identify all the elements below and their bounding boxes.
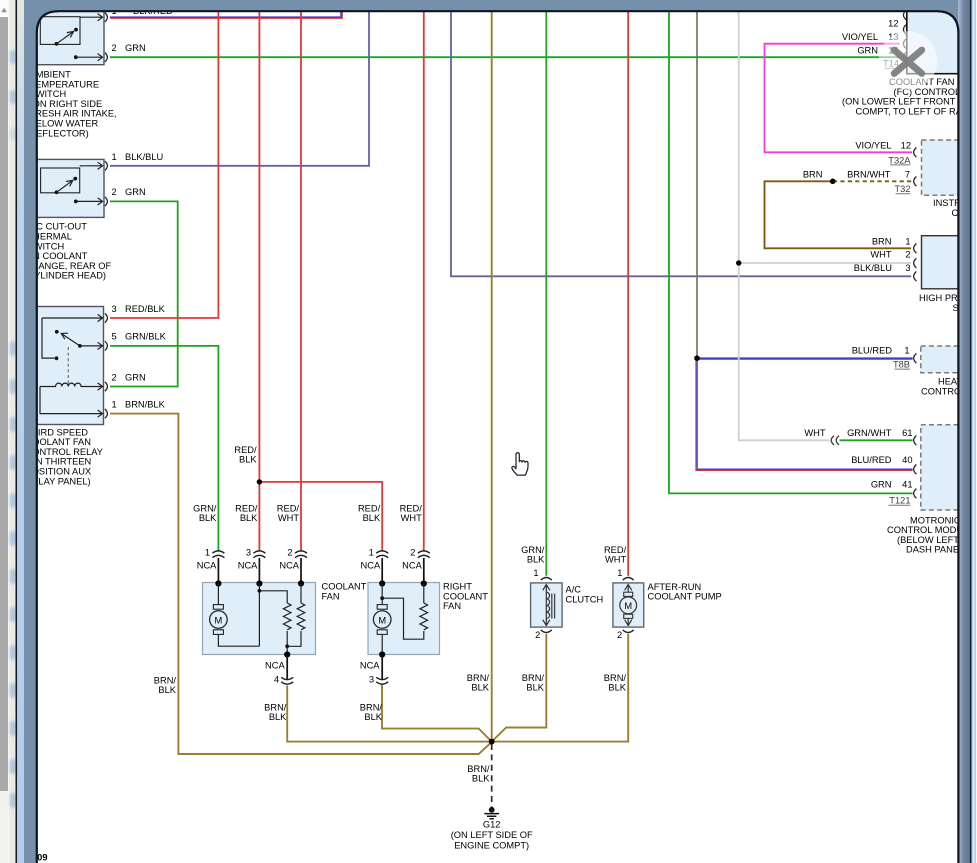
wire RED/WHT vertical to after-run pump pin 1	[627, 10, 629, 576]
svg-text:DEFLECTOR): DEFLECTOR)	[30, 128, 89, 138]
scrollbar track	[0, 0, 9, 863]
ambient switch pin 2 connector arc	[105, 53, 108, 62]
svg-text:GRN/: GRN/	[193, 503, 217, 513]
svg-text:WHT: WHT	[870, 250, 891, 260]
relay actuator dashed link	[67, 347, 69, 384]
svg-text:AFTER-RUN: AFTER-RUN	[648, 582, 702, 592]
svg-text:(ON LEFT SIDE OF: (ON LEFT SIDE OF	[451, 830, 533, 840]
svg-text:2: 2	[617, 630, 622, 640]
right fan internal node	[380, 596, 384, 600]
ambient switch contact A	[55, 42, 59, 46]
relay NO contact node	[55, 330, 59, 334]
svg-text:GRN/: GRN/	[521, 545, 545, 555]
right fan pin 2 connector	[418, 551, 430, 558]
coolant fan pin 4 lead	[286, 655, 288, 680]
svg-text:BLK: BLK	[472, 774, 490, 784]
right fan motor M	[377, 605, 387, 610]
svg-text:COOLANT PUMP: COOLANT PUMP	[648, 592, 722, 602]
wire WHT to high pressure switch pin 2	[739, 262, 911, 264]
svg-text:RED/: RED/	[400, 503, 423, 513]
right coolant fan box	[368, 583, 440, 655]
after-run coolant pump box	[613, 583, 644, 627]
svg-text:BLK: BLK	[269, 712, 287, 722]
svg-text:RED/: RED/	[604, 545, 627, 555]
svg-text:A/C: A/C	[566, 585, 582, 595]
svg-text:1: 1	[904, 346, 909, 356]
svg-text:1: 1	[533, 568, 538, 578]
svg-text:NCA: NCA	[360, 660, 380, 670]
svg-text:WHT: WHT	[804, 428, 825, 438]
a/c clutch plates	[552, 594, 555, 619]
ambient switch pin 2 lead	[76, 54, 103, 61]
instrument cluster T32A pin arc	[914, 148, 917, 158]
svg-text:FRESH AIR INTAKE,: FRESH AIR INTAKE,	[30, 109, 117, 119]
junction on RED/BLK wire	[257, 479, 262, 484]
relay common pivot node	[78, 344, 82, 348]
a/c clutch pin 2 connector arc	[541, 630, 552, 633]
high pressure switch box	[922, 236, 972, 289]
relay coil and pin 2 lead	[40, 383, 103, 390]
svg-text:NCA: NCA	[197, 560, 217, 570]
a/c cut-out thermal switch box	[28, 159, 104, 217]
relay fixed contact frame	[42, 318, 54, 358]
svg-text:2: 2	[112, 372, 117, 382]
svg-text:2: 2	[410, 547, 415, 557]
thermal switch pin 2 lead	[76, 198, 103, 205]
heater control box	[921, 346, 971, 373]
thermal switch contact A	[55, 190, 59, 194]
svg-text:40: 40	[902, 455, 912, 465]
svg-text:BRN/WHT: BRN/WHT	[847, 169, 891, 179]
coolant fan resistor junction node	[285, 644, 289, 648]
svg-text:GRN/BLK: GRN/BLK	[125, 332, 167, 342]
wire GRN/BLK vertical to A/C clutch pin 1	[545, 10, 547, 576]
svg-text:2: 2	[112, 43, 117, 53]
wire BRN/BLK after-run pump pin 2 to ground junction	[493, 634, 629, 742]
svg-text:RED/: RED/	[235, 503, 258, 513]
gradient strip	[17, 0, 24, 863]
svg-text:7: 7	[905, 169, 910, 179]
close button X	[894, 50, 922, 74]
ground symbol G12	[489, 807, 495, 813]
wire GRN/BLK relay pin 5 to coolant fan pin 1	[110, 346, 218, 551]
ground junction G12 node	[489, 739, 495, 745]
svg-text:BLK: BLK	[364, 712, 382, 722]
instrument cluster box	[922, 140, 972, 195]
right fan bottom terminal node	[379, 651, 385, 657]
svg-text:RED/BLK: RED/BLK	[125, 304, 166, 314]
coolant fan internal node	[258, 589, 262, 593]
motronic pin 61 arc	[914, 436, 917, 446]
motronic pin 40 arc	[914, 465, 917, 475]
svg-text:COOLANT: COOLANT	[443, 591, 488, 601]
svg-text:1: 1	[205, 547, 210, 557]
wire BLK/BLU vertical to high pressure switch pin 3	[451, 10, 911, 276]
a/c clutch center line with arrows	[543, 585, 550, 626]
wire BRN/BLK coolant fan pin 4 to ground junction	[287, 686, 490, 742]
svg-text:5: 5	[112, 332, 117, 342]
svg-text:2: 2	[905, 250, 910, 260]
svg-text:BLU/RED: BLU/RED	[851, 455, 892, 465]
svg-text:NCA: NCA	[361, 560, 381, 570]
scrollbar thumb	[0, 17, 8, 791]
svg-text:BLK: BLK	[158, 685, 176, 695]
coolant fan pin leads NCA	[218, 558, 423, 583]
relay NC contact node	[55, 356, 59, 360]
ambient switch inner frame	[40, 17, 80, 45]
wire BRN/BLK relay pin 1 to ground junction	[110, 414, 492, 754]
wire BRN/BLK dashed ground lead	[491, 744, 493, 807]
coolant fan box	[203, 583, 316, 655]
ambient switch pin 1 lead	[80, 14, 103, 21]
coolant fan pin 3 connector	[253, 551, 265, 558]
pump motor M	[624, 592, 633, 596]
relay pin 2 connector arc	[105, 382, 108, 391]
svg-text:BRN/: BRN/	[467, 764, 490, 774]
svg-text:GRN: GRN	[125, 187, 146, 197]
close button translucent circle	[879, 31, 938, 90]
coolant fan control (FC) module box	[907, 6, 977, 74]
svg-text:BRN/: BRN/	[264, 703, 287, 713]
right fan resistor	[420, 603, 428, 630]
svg-text:BRN/BLK: BRN/BLK	[125, 399, 166, 409]
relay pin 1 connector arc	[105, 409, 108, 418]
svg-text:GRN: GRN	[871, 480, 892, 490]
svg-text:VIO/YEL: VIO/YEL	[842, 32, 878, 42]
ambient temperature switch box	[28, 0, 104, 65]
coolant fan motor M	[213, 605, 223, 610]
wire GRY vertical to BLU/RED node	[696, 10, 698, 358]
coolant fan resistor 2	[297, 603, 305, 630]
svg-text:(ON RIGHT SIDE: (ON RIGHT SIDE	[30, 99, 103, 109]
svg-text:FLANGE, REAR OF: FLANGE, REAR OF	[28, 261, 112, 271]
svg-text:FAN: FAN	[443, 601, 461, 611]
right outer light strip	[972, 0, 977, 863]
svg-text:FAN: FAN	[322, 591, 340, 601]
thermal switch pin 2 connector arc	[105, 197, 108, 206]
wire BLU/RED to motronic pin 40 (red stripe)	[696, 358, 913, 470]
svg-text:ENGINE COMPT): ENGINE COMPT)	[454, 840, 529, 850]
svg-text:2: 2	[535, 630, 540, 640]
svg-text:BLK/BLU: BLK/BLU	[854, 263, 892, 273]
thermal switch inner frame	[41, 168, 80, 193]
thermal switch contact B	[73, 177, 77, 181]
svg-text:NCA: NCA	[279, 560, 299, 570]
wire RED/BLK vertical to coolant fan pin 3	[258, 10, 260, 551]
coolant fan bottom terminal node	[284, 651, 290, 657]
svg-text:4: 4	[274, 675, 279, 685]
svg-text:WHT: WHT	[278, 513, 299, 523]
thermal switch pin 2 node	[74, 200, 78, 204]
wire GRN vertical to motronic pin 41	[669, 10, 913, 493]
right frame band gradient	[958, 0, 970, 863]
wire WHT vertical to splice	[739, 10, 830, 440]
wire GRN from ambient switch pin 2 to FC module pin 14	[110, 56, 900, 58]
coolant fan resistor 1	[283, 603, 291, 630]
svg-text:1: 1	[112, 152, 117, 162]
svg-text:3: 3	[369, 675, 374, 685]
ambient switch contact B	[74, 28, 78, 32]
svg-text:BLK: BLK	[526, 682, 544, 692]
a/c clutch coil	[546, 592, 549, 618]
svg-text:T8B: T8B	[893, 360, 910, 370]
wire GRN/WHT splice to motronic pin 61	[840, 439, 913, 441]
FC module pin 13 arc	[903, 39, 906, 49]
wire BLK/RED from ambient switch pin 1 (red stripe)	[110, 10, 342, 18]
right fan pin 1 connector	[376, 551, 388, 558]
svg-text:BRN: BRN	[803, 169, 823, 179]
relay pin 5 connector arc	[105, 341, 108, 350]
junction on WHT wire	[736, 260, 741, 265]
svg-text:12: 12	[888, 18, 898, 28]
relay pin 5 lead	[80, 342, 103, 349]
svg-text:1: 1	[905, 237, 910, 247]
svg-text:BLK: BLK	[240, 513, 258, 523]
svg-text:T32A: T32A	[888, 155, 911, 165]
ambient switch arm	[57, 31, 74, 43]
svg-text:2: 2	[287, 547, 292, 557]
panel divider dark line	[16, 0, 18, 863]
pump pin 2 connector arc	[623, 630, 634, 633]
svg-text:(ON LOWER LEFT FRONT OF ENGINE: (ON LOWER LEFT FRONT OF ENGINE	[842, 97, 977, 107]
svg-text:RIGHT: RIGHT	[443, 582, 472, 592]
svg-text:1: 1	[617, 568, 622, 578]
svg-text:BLK: BLK	[363, 513, 381, 523]
wire BRN to high pressure switch pin 1	[765, 181, 912, 248]
svg-text:1: 1	[112, 399, 117, 409]
svg-text:BRN/: BRN/	[360, 703, 383, 713]
thermal switch pin 1 connector arc	[105, 161, 108, 170]
svg-text:3: 3	[112, 304, 117, 314]
thumbnail strip background	[8, 0, 10, 863]
right fan pin 3 lead	[381, 655, 383, 680]
svg-text:T121: T121	[889, 496, 910, 506]
svg-text:WHT: WHT	[605, 554, 626, 564]
svg-text:12: 12	[901, 141, 911, 151]
svg-text:NCA: NCA	[402, 560, 422, 570]
svg-text:GRN: GRN	[125, 43, 146, 53]
wire BLK/BLU from thermal switch pin 1	[110, 10, 369, 166]
svg-text:3: 3	[246, 547, 251, 557]
pump center line with arrows	[625, 585, 632, 626]
wire BLK/RED from ambient switch pin 1	[110, 10, 341, 17]
wire BRN/BLK center vertical to ground junction	[491, 10, 493, 740]
wire BLU/RED to motronic pin 40	[697, 358, 913, 469]
svg-text:BLK/BLU: BLK/BLU	[125, 152, 163, 162]
ambient switch pin 1 connector arc	[105, 13, 108, 22]
right fan pin 3 connector	[376, 677, 388, 684]
svg-text:BLU/RED: BLU/RED	[852, 346, 893, 356]
thermal switch arm	[57, 180, 73, 192]
svg-text:41: 41	[902, 480, 912, 490]
relay pin 3 connector arc	[105, 313, 108, 322]
wire VIO/YEL FC pin 13 to instrument cluster T32A	[765, 44, 913, 153]
svg-text:2: 2	[112, 187, 117, 197]
high pressure switch pin 3 arc	[914, 272, 917, 282]
motronic control module box	[921, 425, 971, 510]
junction on BRN wire	[830, 179, 836, 185]
svg-text:M: M	[215, 616, 223, 626]
third speed coolant fan control relay box	[28, 307, 104, 425]
wire RED/BLK relay pin 3	[110, 10, 218, 318]
FC module pin 14 arc	[903, 52, 906, 62]
svg-text:TEMPERATURE: TEMPERATURE	[30, 79, 100, 89]
wire RED/WHT vertical to coolant fan pin 2	[300, 10, 302, 551]
thumbnail strip blobs	[10, 50, 16, 808]
svg-text:VIO/YEL: VIO/YEL	[855, 141, 891, 151]
svg-text:61: 61	[902, 428, 912, 438]
wire BLU/RED to heater control T8B (red stripe)	[697, 358, 913, 360]
svg-text:3: 3	[905, 263, 910, 273]
svg-text:GRN/WHT: GRN/WHT	[847, 428, 892, 438]
svg-text:BELOW WATER: BELOW WATER	[30, 119, 99, 129]
svg-text:BLK: BLK	[608, 682, 626, 692]
right fan internal wiring	[382, 584, 424, 655]
ambient switch pin 2 node	[74, 55, 78, 59]
coolant fan top terminal nodes	[215, 580, 221, 586]
coolant fan internal wiring	[218, 584, 301, 655]
motronic pin 41 arc	[914, 489, 917, 499]
svg-text:BRN/: BRN/	[154, 675, 177, 685]
svg-text:BLK: BLK	[239, 454, 257, 464]
junction on BLU/RED wire	[694, 355, 700, 361]
svg-text:G12: G12	[483, 820, 501, 830]
FC module pin 12 arc	[903, 25, 906, 35]
pump pin 1 connector arc	[623, 578, 634, 581]
high pressure switch pin 1 arc	[914, 244, 917, 254]
svg-text:RED/: RED/	[358, 503, 381, 513]
svg-text:BLK: BLK	[527, 554, 545, 564]
a/c clutch box	[531, 583, 563, 627]
svg-text:RED/: RED/	[234, 445, 257, 455]
svg-text:BLK: BLK	[199, 513, 217, 523]
instrument cluster T32 pin arc	[914, 177, 917, 187]
heater control T8B pin arc	[914, 353, 917, 363]
svg-text:COOLANT: COOLANT	[322, 582, 367, 592]
wire RED/BLK branch to right coolant fan pin 1	[259, 482, 382, 551]
coolant fan pin 1 connector	[212, 551, 224, 558]
svg-text:CYLINDER HEAD): CYLINDER HEAD)	[28, 271, 107, 281]
svg-text:M: M	[624, 601, 632, 611]
splice double arcs	[831, 436, 839, 445]
thermal switch pin 1 lead	[80, 162, 103, 169]
svg-text:BRN/: BRN/	[604, 673, 627, 683]
high pressure switch pin 2 arc	[914, 258, 917, 268]
wire GRN thermal switch pin 2 to relay pin 2	[110, 201, 178, 386]
FC module pin arc (top, cut)	[903, 10, 906, 20]
wire BRN/BLK right coolant fan pin 3 to ground junction	[382, 685, 492, 742]
svg-text:GRN: GRN	[125, 372, 146, 382]
mouse hand cursor	[512, 453, 528, 475]
svg-text:1: 1	[369, 547, 374, 557]
svg-text:WHT: WHT	[401, 513, 422, 523]
scrollbar up-arrow button	[0, 0, 9, 17]
svg-text:CLUTCH: CLUTCH	[566, 595, 604, 605]
a/c clutch pin 1 connector arc	[541, 578, 552, 581]
svg-text:BRN/: BRN/	[467, 673, 490, 683]
relay switch arm	[61, 333, 80, 346]
wire RED/WHT vertical to right coolant fan pin 2	[423, 10, 425, 551]
coolant fan pin 4 connector	[281, 677, 293, 684]
svg-text:NCA: NCA	[238, 560, 258, 570]
svg-text:GRN: GRN	[857, 45, 878, 55]
svg-text:BRN: BRN	[872, 237, 892, 247]
wire BRN/WHT dashed to instrument cluster T32	[833, 180, 912, 182]
coolant fan pin 2 connector	[295, 551, 307, 558]
svg-text:M: M	[378, 616, 386, 626]
wire BLU/RED to heater control T8B	[697, 357, 913, 359]
wire BRN/BLK A/C clutch pin 2 to ground junction	[492, 634, 546, 741]
svg-text:BLK: BLK	[471, 682, 489, 692]
relay pin 3 lead	[42, 314, 103, 321]
svg-text:BRN/: BRN/	[522, 673, 545, 683]
svg-text:T32: T32	[894, 184, 910, 194]
relay coil to pin 1 lead	[40, 387, 103, 418]
svg-text:RED/: RED/	[277, 503, 300, 513]
svg-text:NCA: NCA	[265, 660, 285, 670]
right outer dark line	[970, 0, 972, 863]
